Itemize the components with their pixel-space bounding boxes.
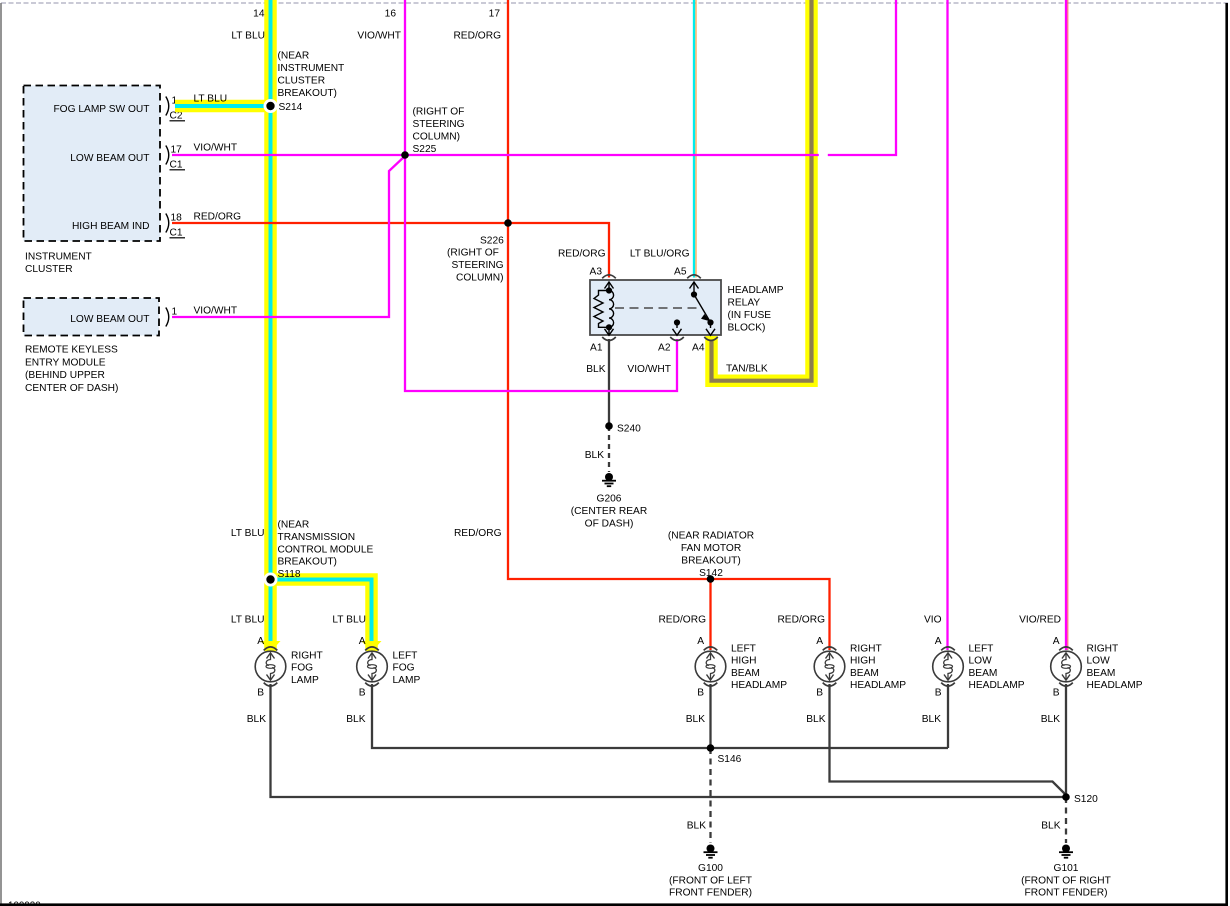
svg-text:B: B xyxy=(257,688,264,699)
svg-text:BLK: BLK xyxy=(1041,821,1060,832)
svg-text:LAMP: LAMP xyxy=(291,675,319,686)
wire VIO/WHT: INSTRUMENT CLUSTER pin 17 through S225 then up to top edge xyxy=(172,154,819,156)
svg-text:S214: S214 xyxy=(279,102,303,113)
wire LT BLU branch: S118 right then down to LEFT FOG LAMP pin A xyxy=(271,580,372,652)
svg-text:VIO/WHT: VIO/WHT xyxy=(194,143,238,154)
svg-text:BREAKOUT): BREAKOUT) xyxy=(278,557,337,568)
splice S120 xyxy=(1062,793,1070,801)
svg-text:LEFT: LEFT xyxy=(393,651,418,662)
svg-text:RED/ORG: RED/ORG xyxy=(454,528,502,539)
svg-text:B: B xyxy=(359,688,366,699)
lamp: LEFT FOG LAMP xyxy=(357,651,388,682)
svg-text:OF DASH): OF DASH) xyxy=(585,519,634,530)
svg-text:HIGH: HIGH xyxy=(850,656,875,667)
svg-text:(BEHIND UPPER: (BEHIND UPPER xyxy=(25,370,105,381)
svg-text:BLK: BLK xyxy=(585,450,604,461)
svg-text:BLK: BLK xyxy=(922,714,941,725)
svg-text:HIGH: HIGH xyxy=(731,656,756,667)
svg-text:16: 16 xyxy=(385,9,397,20)
svg-text:LT BLU: LT BLU xyxy=(194,94,228,105)
svg-text:FOG: FOG xyxy=(291,663,313,674)
svg-text:VIO: VIO xyxy=(924,615,942,626)
wire arrow into RIGHT FOG LAMP pin A xyxy=(261,641,281,652)
lamp: RIGHT FOG LAMP xyxy=(255,651,286,682)
svg-text:A4: A4 xyxy=(692,343,705,354)
wire BLK: RIGHT LOW BEAM pin B down to S120 xyxy=(1065,684,1067,797)
svg-text:HEADLAMP: HEADLAMP xyxy=(1087,680,1143,691)
lamp: LEFT HIGH BEAM HEADLAMP xyxy=(695,651,726,682)
svg-text:LAMP: LAMP xyxy=(393,675,421,686)
svg-text:(NEAR RADIATOR: (NEAR RADIATOR xyxy=(668,531,754,542)
relay pin A2 xyxy=(670,337,684,341)
svg-text:LOW BEAM OUT: LOW BEAM OUT xyxy=(70,153,149,164)
svg-text:A3: A3 xyxy=(590,267,603,278)
wire BLK: S240 down to ground G206 (dashed) xyxy=(608,426,610,472)
splice S142 xyxy=(707,575,715,583)
wire VIO/RED: top edge down to RIGHT LOW BEAM pin A xyxy=(1067,0,1069,650)
svg-text:RED/ORG: RED/ORG xyxy=(453,31,501,42)
svg-text:LT BLU: LT BLU xyxy=(231,528,265,539)
svg-text:VIO/WHT: VIO/WHT xyxy=(194,306,238,317)
wire VIO: top edge down to LEFT LOW BEAM pin A xyxy=(946,0,948,650)
ground G206 xyxy=(602,473,616,486)
wire BLK: RIGHT FOG LAMP pin B down and right to S120 xyxy=(271,684,1067,797)
svg-text:LOW: LOW xyxy=(1087,656,1111,667)
lamp: LEFT LOW BEAM HEADLAMP xyxy=(933,651,964,682)
wire VIO/WHT: S225 down, right, up to relay pin A2 xyxy=(405,155,677,391)
wire VIO/WHT: REMOTE KEYLESS ENTRY MODULE pin 1 right and up to S225 xyxy=(172,156,405,317)
svg-text:BLK: BLK xyxy=(686,714,705,725)
svg-text:BREAKOUT): BREAKOUT) xyxy=(681,556,740,567)
svg-text:BREAKOUT): BREAKOUT) xyxy=(278,88,337,99)
svg-text:FRONT FENDER): FRONT FENDER) xyxy=(1024,888,1107,899)
relay: HEADLAMP RELAY (IN FUSE BLOCK) xyxy=(590,280,721,335)
svg-text:BLOCK): BLOCK) xyxy=(728,323,766,334)
svg-text:BEAM: BEAM xyxy=(850,668,879,679)
svg-text:HEADLAMP: HEADLAMP xyxy=(731,680,787,691)
svg-text:B: B xyxy=(935,688,942,699)
svg-text:BLK: BLK xyxy=(806,714,825,725)
svg-text:LEFT: LEFT xyxy=(731,644,756,655)
svg-text:(IN FUSE: (IN FUSE xyxy=(728,310,772,321)
svg-text:INSTRUMENT: INSTRUMENT xyxy=(278,63,345,74)
svg-text:BLK: BLK xyxy=(586,364,605,375)
svg-text:A: A xyxy=(1053,636,1060,647)
svg-text:VIO/RED: VIO/RED xyxy=(1019,615,1061,626)
svg-text:S142: S142 xyxy=(699,568,723,579)
svg-text:LOW: LOW xyxy=(969,656,993,667)
svg-text:(RIGHT OF: (RIGHT OF xyxy=(413,107,465,118)
svg-text:S120: S120 xyxy=(1074,794,1098,805)
svg-text:LT BLU: LT BLU xyxy=(231,31,265,42)
svg-text:CLUSTER: CLUSTER xyxy=(25,264,73,275)
lamp: RIGHT HIGH BEAM HEADLAMP xyxy=(814,651,845,682)
svg-text:RIGHT: RIGHT xyxy=(850,644,882,655)
svg-text:CLUSTER: CLUSTER xyxy=(278,76,326,87)
wire BLK: S120 down to ground G101 (dashed) xyxy=(1065,797,1067,843)
svg-text:LEFT: LEFT xyxy=(969,644,994,655)
splice S226 xyxy=(504,219,512,227)
wire VIO/WHT circuit 16: top edge down to S225 xyxy=(404,0,406,155)
svg-text:(NEAR: (NEAR xyxy=(278,51,310,62)
svg-text:A5: A5 xyxy=(674,267,687,278)
svg-text:VIO/WHT: VIO/WHT xyxy=(627,364,671,375)
svg-text:COLUMN): COLUMN) xyxy=(413,132,461,143)
svg-text:RIGHT: RIGHT xyxy=(291,651,323,662)
svg-text:LOW BEAM OUT: LOW BEAM OUT xyxy=(70,314,149,325)
wire BLK: relay pin A1 down to S240 xyxy=(608,339,610,426)
svg-text:S240: S240 xyxy=(617,424,641,435)
svg-text:100920: 100920 xyxy=(8,901,41,906)
wire BLK: RIGHT HIGH BEAM pin B down, right, diagonal to S120 xyxy=(830,684,1067,795)
svg-text:TAN/BLK: TAN/BLK xyxy=(726,364,768,375)
wire LT BLU circuit 14: top edge down through S214 and S118 to RIGHT FOG LAMP pin A xyxy=(264,0,277,651)
svg-text:S118: S118 xyxy=(278,569,301,580)
svg-text:HEADLAMP: HEADLAMP xyxy=(969,680,1025,691)
svg-text:14: 14 xyxy=(253,9,265,20)
ground G100 xyxy=(704,845,718,858)
relay pin A5 xyxy=(687,275,701,279)
splice S214 xyxy=(264,99,278,113)
svg-text:FOG: FOG xyxy=(393,663,415,674)
svg-text:G101: G101 xyxy=(1054,863,1079,874)
wire LT BLU: INSTRUMENT CLUSTER pin 1 to S214 xyxy=(175,100,271,113)
svg-text:(FRONT OF RIGHT: (FRONT OF RIGHT xyxy=(1021,875,1111,886)
pin 1 C2 of INSTRUMENT CLUSTER xyxy=(166,96,185,122)
ground G101 xyxy=(1059,845,1073,858)
svg-text:B: B xyxy=(1053,688,1060,699)
svg-text:17: 17 xyxy=(171,145,183,156)
relay pin A4 xyxy=(704,337,718,341)
svg-text:FRONT FENDER): FRONT FENDER) xyxy=(669,888,752,899)
relay coil between A3 and A1 xyxy=(594,282,614,335)
svg-text:S225: S225 xyxy=(413,144,437,155)
relay pin A1 xyxy=(602,337,616,341)
svg-text:LT BLU: LT BLU xyxy=(231,615,265,626)
svg-text:RED/ORG: RED/ORG xyxy=(777,615,825,626)
svg-text:LT BLU/ORG: LT BLU/ORG xyxy=(630,249,690,260)
svg-text:A2: A2 xyxy=(658,343,671,354)
svg-text:18: 18 xyxy=(171,213,183,224)
svg-text:BEAM: BEAM xyxy=(969,668,998,679)
wire LT BLU/ORG: top edge down to relay pin A5 xyxy=(695,0,697,278)
svg-text:VIO/WHT: VIO/WHT xyxy=(357,31,401,42)
svg-text:RELAY: RELAY xyxy=(728,298,761,309)
svg-text:HEADLAMP: HEADLAMP xyxy=(850,680,906,691)
svg-text:REMOTE KEYLESS: REMOTE KEYLESS xyxy=(25,345,118,356)
relay switch between A5, A2, A4 xyxy=(673,282,716,335)
svg-text:BEAM: BEAM xyxy=(1087,668,1116,679)
svg-text:B: B xyxy=(816,688,823,699)
module: REMOTE KEYLESS ENTRY MODULE xyxy=(24,298,160,394)
splice S118 xyxy=(264,573,278,587)
splice S146 xyxy=(707,744,715,752)
svg-text:RED/ORG: RED/ORG xyxy=(558,249,606,260)
module: INSTRUMENT CLUSTER xyxy=(24,86,161,276)
svg-text:BLK: BLK xyxy=(247,714,266,725)
splice S225 xyxy=(401,151,409,159)
svg-text:S146: S146 xyxy=(718,754,742,765)
pin 17 C1 of INSTRUMENT CLUSTER xyxy=(166,145,185,171)
svg-text:COLUMN): COLUMN) xyxy=(456,272,504,283)
svg-text:INSTRUMENT: INSTRUMENT xyxy=(25,252,92,263)
svg-text:LT BLU: LT BLU xyxy=(332,615,366,626)
svg-text:BLK: BLK xyxy=(346,714,365,725)
wire BLK: LEFT FOG LAMP pin B down, right to LEFT LOW BEAM pin B wire through S146 xyxy=(372,684,948,748)
svg-text:BLK: BLK xyxy=(1041,714,1060,725)
svg-text:G100: G100 xyxy=(698,863,723,874)
svg-text:TRANSMISSION: TRANSMISSION xyxy=(278,532,356,543)
svg-text:(RIGHT OF: (RIGHT OF xyxy=(447,248,499,259)
svg-text:BLK: BLK xyxy=(687,821,706,832)
svg-text:A: A xyxy=(359,636,366,647)
wire BLK: S146 down to ground G100 (dashed) xyxy=(709,748,711,843)
wire RED/ORG: INSTRUMENT CLUSTER pin 18 to relay pin A3 xyxy=(172,223,609,278)
splice S240 xyxy=(605,422,613,430)
svg-text:CONTROL MODULE: CONTROL MODULE xyxy=(278,544,374,555)
relay pin A3 xyxy=(602,275,616,279)
svg-text:A: A xyxy=(935,636,942,647)
svg-text:1: 1 xyxy=(172,307,178,318)
svg-text:CENTER OF DASH): CENTER OF DASH) xyxy=(25,383,118,394)
wire BLK: LEFT LOW BEAM pin B down to S146 line xyxy=(947,684,949,748)
svg-text:G206: G206 xyxy=(597,494,622,505)
svg-text:HEADLAMP: HEADLAMP xyxy=(728,285,784,296)
svg-text:B: B xyxy=(697,688,704,699)
svg-text:STEERING: STEERING xyxy=(413,119,465,130)
svg-text:C1: C1 xyxy=(170,160,183,171)
svg-text:FAN MOTOR: FAN MOTOR xyxy=(681,543,741,554)
svg-text:S226: S226 xyxy=(480,235,504,246)
pin 18 C1 of INSTRUMENT CLUSTER xyxy=(166,213,185,239)
svg-text:A: A xyxy=(697,636,704,647)
wire TAN/BLK: HEADLAMP RELAY pin A4 down, right, and up to top edge xyxy=(712,0,812,381)
svg-text:FOG LAMP SW OUT: FOG LAMP SW OUT xyxy=(53,104,149,115)
svg-text:RIGHT: RIGHT xyxy=(1087,644,1119,655)
wire RED/ORG: S142 down to LEFT HIGH BEAM pin A xyxy=(709,579,711,650)
svg-text:A: A xyxy=(257,636,264,647)
svg-text:17: 17 xyxy=(489,9,501,20)
wire RED/ORG circuit 17: top edge down, right along y=579, down to RIGHT HIGH BEAM pin A xyxy=(508,0,830,650)
pin 1 of REMOTE KEYLESS ENTRY MODULE xyxy=(166,307,178,327)
svg-text:A1: A1 xyxy=(590,343,603,354)
wire arrow into LEFT FOG LAMP pin A xyxy=(362,641,382,652)
wire BLK: LEFT HIGH BEAM pin B down to S146 xyxy=(709,684,711,748)
svg-text:(NEAR: (NEAR xyxy=(278,520,310,531)
svg-text:C1: C1 xyxy=(170,228,183,239)
svg-text:HIGH BEAM IND: HIGH BEAM IND xyxy=(72,221,150,232)
svg-text:(CENTER REAR: (CENTER REAR xyxy=(571,506,647,517)
lamp: RIGHT LOW BEAM HEADLAMP xyxy=(1051,651,1082,682)
svg-text:RED/ORG: RED/ORG xyxy=(658,615,706,626)
svg-text:BEAM: BEAM xyxy=(731,668,760,679)
svg-text:(FRONT OF LEFT: (FRONT OF LEFT xyxy=(669,875,752,886)
svg-text:A: A xyxy=(816,636,823,647)
svg-text:ENTRY MODULE: ENTRY MODULE xyxy=(25,357,106,368)
svg-text:STEERING: STEERING xyxy=(452,260,504,271)
svg-text:RED/ORG: RED/ORG xyxy=(194,212,242,223)
